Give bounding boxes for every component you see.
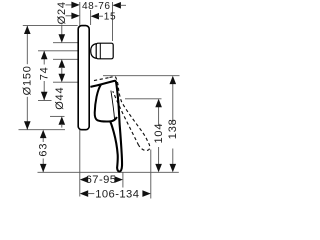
dimension 104 line — [158, 106, 160, 126]
dimension 48-76 right arrow — [113, 2, 121, 9]
svg-text:Ø44: Ø44 — [54, 87, 66, 110]
dimension D44 arrows — [59, 116, 66, 124]
lever outline: arm top, knuckle, right edge, blade, tip, inner edge — [90, 81, 122, 172]
svg-text:15: 15 — [104, 11, 116, 22]
dimension 138 line — [172, 83, 174, 122]
dimension 15 arrow — [91, 13, 99, 20]
svg-text:74: 74 — [38, 66, 50, 80]
escutcheon bottom extension line — [19, 129, 66, 131]
hub bottom extension line — [50, 115, 65, 117]
escutcheon front extension line — [90, 10, 92, 25]
escutcheon (edge view) — [78, 26, 89, 130]
dimension 63 line — [42, 137, 44, 142]
dimension D24 leader and arrows — [61, 25, 63, 36]
dimension D24 horizontal arrows to wall line — [66, 4, 74, 6]
lever axis extension line right — [125, 98, 162, 100]
knob cylinder — [96, 43, 113, 59]
wall plane extension line top — [79, 2, 81, 26]
solid lever tip extension line — [122, 172, 124, 187]
knob cone — [91, 44, 97, 59]
wall plane extension line bottom — [79, 130, 81, 197]
lever axis extension line left — [38, 100, 52, 102]
svg-text:Ø150: Ø150 — [22, 65, 34, 95]
hub top extension line — [53, 81, 78, 83]
knob top extension line — [53, 42, 78, 44]
svg-text:63: 63 — [37, 143, 49, 157]
lever dashed alternate position arm — [94, 78, 110, 81]
dimension 67-95 row — [80, 176, 88, 183]
knob ring line — [99, 43, 101, 58]
lever bottom extension line — [38, 171, 179, 173]
knob axis extension line — [38, 50, 78, 52]
svg-text:138: 138 — [167, 118, 179, 139]
svg-text:104: 104 — [153, 123, 165, 144]
knob front extension line — [112, 2, 114, 41]
dashed lever tip extension line — [150, 150, 152, 199]
dimension D150 line — [26, 26, 28, 65]
lever dashed alternate position outline — [110, 77, 150, 151]
lever wedge left edge and bottom curve — [95, 84, 117, 121]
escutcheon top extension line — [23, 25, 78, 27]
dimension 106-134 row — [80, 190, 88, 197]
svg-text:106-134: 106-134 — [95, 188, 139, 200]
knob bottom extension line — [53, 58, 78, 60]
svg-text:67-95: 67-95 — [86, 174, 117, 186]
lever crease line — [111, 91, 115, 120]
svg-text:48-76: 48-76 — [82, 1, 111, 12]
dashed-knuckle top extension line — [103, 75, 180, 77]
lever dashed inner edge — [113, 91, 139, 145]
dimension 74 line — [43, 51, 45, 65]
